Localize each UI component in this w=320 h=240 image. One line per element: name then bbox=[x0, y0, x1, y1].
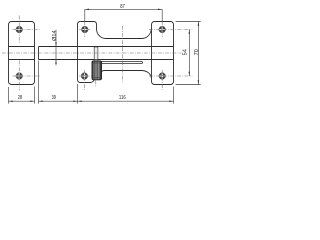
centerline keeper bottom hole vertical bbox=[18, 60, 20, 90]
centerline keeper top hole vertical bbox=[18, 16, 20, 44]
body left section outline with bottom saddle edge bbox=[78, 22, 152, 83]
keeper plate (left) bbox=[9, 22, 35, 85]
svg-text:87: 87 bbox=[120, 4, 125, 10]
hole body bottom-left bbox=[81, 73, 88, 80]
centerline body middle vertical bbox=[122, 26, 124, 83]
centerlines (dash-dot) bbox=[2, 16, 192, 91]
dimension 39 (rod end to body) bbox=[39, 61, 78, 104]
centerline top hole row body-left hole crosshair bbox=[79, 29, 90, 31]
hole plate top-right bbox=[159, 26, 166, 33]
svg-text:116: 116 bbox=[119, 95, 126, 101]
dimension 87 (hole spacing horizontal) bbox=[85, 9, 162, 21]
hole body top-left bbox=[82, 26, 89, 33]
centerline bolt axis bbox=[2, 52, 182, 54]
knurled knob bbox=[92, 61, 102, 80]
centerline bottom hole row right plate segment bbox=[149, 75, 192, 77]
dimension 28 (keeper width) bbox=[9, 87, 35, 104]
dimension D14 (rod diameter) bbox=[55, 30, 57, 66]
centerline top hole row keeper segment bbox=[13, 29, 42, 31]
slide slot bbox=[96, 62, 143, 64]
dimension 54 (hole spacing vertical) bbox=[188, 30, 190, 77]
dimension 70 (plate height) bbox=[176, 22, 201, 85]
screw holes: slotted pan-head screws bbox=[16, 26, 166, 79]
centerline bottom hole row body-left segment bbox=[79, 75, 92, 77]
centerline top hole row right plate segment bbox=[149, 29, 192, 31]
bolt housing bottom edge bbox=[39, 59, 174, 61]
hole keeper top bbox=[16, 26, 23, 33]
housing edge lines over stem bbox=[94, 46, 99, 48]
dimension 116 (body length) bbox=[78, 84, 174, 104]
bolt housing top edge bbox=[39, 46, 174, 48]
mounting plate (right) bbox=[152, 22, 174, 85]
svg-text:Ø14: Ø14 bbox=[52, 30, 58, 41]
svg-text:39: 39 bbox=[52, 95, 56, 101]
svg-text:28: 28 bbox=[18, 95, 22, 101]
svg-text:70: 70 bbox=[194, 49, 200, 55]
bolt rod left end cap bbox=[38, 47, 40, 60]
hole keeper bottom bbox=[16, 73, 23, 80]
bolt rod through keeper bottom edge bbox=[9, 59, 35, 61]
svg-text:54: 54 bbox=[183, 49, 189, 55]
hole plate bottom-right bbox=[159, 73, 166, 80]
bolt rod through keeper top edge bbox=[9, 46, 35, 48]
centerline bottom hole row keeper segment bbox=[13, 75, 42, 77]
centerline knob vertical bbox=[95, 81, 97, 88]
centerline body top-left hole vertical bbox=[84, 22, 86, 38]
centerline right plate top hole vertical bbox=[161, 22, 163, 38]
body left section top saddle edge bbox=[81, 22, 152, 39]
knob stem through housing bbox=[94, 47, 98, 61]
centerline body bottom-left hole vertical bbox=[83, 70, 85, 90]
centerline right plate bottom hole vertical bbox=[161, 70, 163, 90]
